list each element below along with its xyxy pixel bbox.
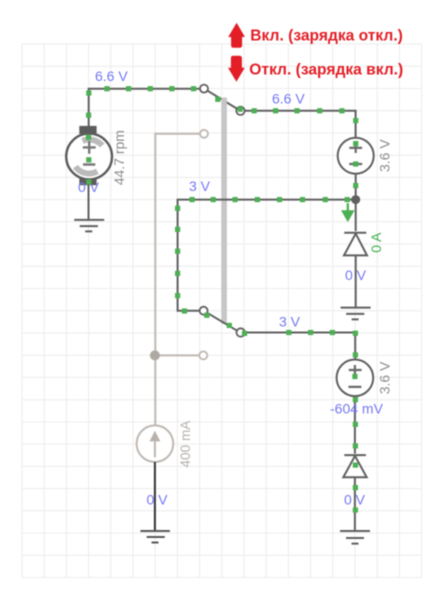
motor M1 (66, 126, 112, 185)
diode D1 (344, 233, 367, 256)
wire: battery B2 to diode D2 (354, 396, 356, 453)
ganged switch link bar (221, 98, 227, 325)
current dots (moving charges) (86, 86, 358, 512)
svg-text:-604 mV: -604 mV (330, 401, 384, 417)
switch SW1 upper throw post (200, 85, 208, 93)
junction node (3 V net) (351, 195, 360, 204)
svg-text:44.7 rpm: 44.7 rpm (111, 130, 127, 185)
wire: diode D2 to ground (354, 477, 356, 531)
switch SW2 common post (237, 328, 245, 336)
annotation arrow up (red) (228, 23, 245, 48)
svg-text:3 V: 3 V (189, 178, 211, 194)
diode D2 (343, 455, 366, 477)
battery B2 (3.6 V) (337, 360, 374, 397)
switch SW1 lower throw post (200, 130, 208, 138)
svg-text:Вкл. (зарядка откл.): Вкл. (зарядка откл.) (250, 28, 403, 45)
ground G1 (341, 308, 371, 320)
junction (pale) on idle net (150, 350, 160, 360)
switch SW2 lower throw post (199, 351, 207, 359)
wire: battery B1 to junction (355, 174, 357, 200)
current direction arrow at junction (343, 203, 353, 220)
current source I1 (400 mA) (137, 425, 174, 462)
svg-text:6.6 V: 6.6 V (95, 68, 128, 84)
switch SW2 upper throw post (200, 307, 208, 315)
wire: junction to diode D1 (355, 204, 357, 231)
wire: 3 V net from junction to switch SW2 (178, 200, 352, 311)
svg-text:0 V: 0 V (344, 492, 366, 508)
svg-text:0 A: 0 A (368, 232, 384, 253)
wire: switch SW1 to battery B1 (245, 111, 355, 138)
battery B1 (3.6 V) (338, 138, 374, 174)
wire: motor to ground (88, 185, 90, 220)
wire: current source to ground (154, 462, 156, 531)
svg-text:400 mA: 400 mA (178, 420, 193, 468)
ground G3 (340, 531, 370, 544)
svg-text:3.6 V: 3.6 V (376, 361, 392, 394)
svg-text:0 V: 0 V (345, 267, 367, 283)
ground G2 (140, 531, 170, 543)
ground G0 (74, 220, 104, 232)
svg-text:6.6 V: 6.6 V (272, 91, 305, 107)
svg-text:3 V: 3 V (279, 314, 301, 330)
svg-text:0 V: 0 V (147, 492, 169, 508)
svg-text:3.6 V: 3.6 V (377, 139, 393, 172)
switch SW2 blade (205, 311, 238, 331)
wire: pale net from switch1 lower throw to current source (155, 134, 200, 426)
annotation arrow down (red) (228, 56, 245, 82)
wire: diode D1 to ground (355, 255, 357, 307)
switch SW1 blade (205, 89, 238, 109)
svg-text:Откл. (зарядка вкл.): Откл. (зарядка вкл.) (249, 62, 403, 79)
wire: motor top to switch SW1 (89, 89, 200, 126)
switch SW1 common post (236, 107, 244, 115)
wire: switch SW2 to battery B2 (246, 333, 356, 360)
